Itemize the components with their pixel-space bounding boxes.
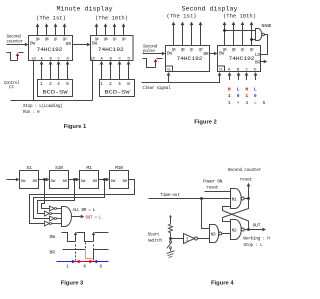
svg-text:BCD-SW: BCD-SW [105, 89, 130, 95]
svg-text:L: L [237, 87, 240, 93]
svg-text:74HC192: 74HC192 [229, 55, 256, 62]
svg-text:Start: Start [148, 233, 161, 238]
junction time-out tap [200, 197, 203, 200]
junction switch node [169, 237, 172, 240]
svg-text:N1: N1 [232, 197, 237, 202]
svg-text:BCD-SW: BCD-SW [43, 89, 68, 95]
junction QA tap [223, 29, 226, 32]
wire U2 LD down to control line [92, 61, 94, 101]
svg-text:counter: counter [7, 39, 24, 44]
svg-text:Time-out: Time-out [161, 193, 181, 198]
svg-text:QD: QD [63, 38, 67, 42]
svg-text:QD: QD [122, 38, 126, 42]
wire U1 BR to U2 DW [73, 44, 88, 46]
junction N2 output [247, 228, 250, 231]
nand gate N2 body [231, 220, 242, 240]
svg-text:1: 1 [40, 81, 43, 87]
svg-text:DW: DW [92, 43, 98, 47]
svg-text:OUT: OUT [253, 223, 261, 229]
wire S1 tap to inverter I1 [42, 180, 50, 209]
svg-text:Figure 4: Figure 4 [211, 281, 234, 287]
svg-text:FF: FF [9, 87, 15, 91]
svg-text:Control: Control [4, 81, 20, 86]
svg-text:BR: BR [93, 180, 98, 184]
svg-text:Second counter: Second counter [228, 168, 262, 173]
wire QA to G1 upper input [225, 30, 256, 32]
svg-text:S1: S1 [26, 165, 32, 171]
inverter I3 [50, 216, 55, 221]
ground symbol [167, 251, 175, 254]
wire U1 LD down to control line [33, 61, 35, 101]
U4 input stubs A B C D [229, 75, 231, 80]
counter box M1 [80, 171, 99, 189]
svg-text:DW: DW [50, 234, 56, 240]
clear arrow to U3 CL [168, 75, 170, 82]
wire S10 tap to inverter I2 [38, 180, 75, 214]
svg-text:1: 1 [100, 81, 103, 87]
svg-text:LD: LD [255, 54, 261, 58]
DW timing waveform [62, 233, 76, 242]
svg-text:DW: DW [81, 180, 86, 184]
power-on reset wire to N1 [205, 191, 231, 193]
wire G2 output [72, 216, 81, 218]
svg-text:QC: QC [190, 49, 194, 53]
svg-text:1: 1 [66, 264, 69, 270]
counter box S1 [20, 171, 39, 189]
svg-text:0: 0 [237, 93, 240, 99]
svg-text:DW: DW [21, 180, 26, 184]
wire U3 BR to U4 DW [210, 53, 215, 55]
wire second counter to U1 DW [7, 44, 26, 46]
svg-text:DW: DW [167, 53, 173, 57]
U2 (minutes 10th) output arrows QA-QD [96, 27, 98, 36]
control FF line to LD pins [11, 100, 93, 102]
second pulse waveform glyph [143, 59, 156, 68]
svg-text:DW: DW [51, 180, 56, 184]
svg-text:QC: QC [54, 38, 58, 42]
svg-text:(The 1st): (The 1st) [167, 14, 197, 20]
svg-text:4: 4 [118, 81, 121, 87]
svg-text:0: 0 [254, 93, 257, 99]
wire M10 BR out and around [30, 180, 135, 224]
svg-text:1: 1 [228, 100, 231, 106]
counter U4 (seconds 10th) 74HC192 body [218, 46, 261, 72]
OUT output arrow [249, 229, 263, 231]
svg-text:QC: QC [113, 38, 117, 42]
svg-text:reset: reset [240, 178, 253, 183]
wire switch node to inverter input [171, 238, 184, 240]
svg-text:4: 4 [245, 100, 248, 106]
resistor R1 zigzag [169, 223, 173, 239]
counter U1 (minutes 1st) 74HC192 body [29, 36, 73, 61]
svg-text:(The 10th): (The 10th) [95, 16, 128, 22]
svg-text:(The 10th): (The 10th) [223, 14, 256, 20]
nand gate N3 body [210, 225, 219, 243]
wire switch to ground [170, 249, 172, 251]
svg-text:9: 9 [99, 264, 102, 270]
start switch SW1 [170, 241, 172, 243]
svg-text:S10: S10 [55, 165, 63, 171]
cross-coupling N1 out to N2 in [223, 199, 249, 222]
nand gate G1 body [256, 29, 262, 41]
svg-text:QD: QD [199, 49, 203, 53]
switch block SW1 BCD-SW body [38, 80, 73, 97]
svg-text:M1: M1 [86, 165, 92, 171]
blue time axis [57, 261, 109, 263]
counter U3 (seconds 1st) 74HC192 body [166, 46, 210, 72]
wire U4 BR output [261, 61, 264, 63]
svg-text:5: 5 [263, 100, 266, 106]
junction tap S1 BR [43, 178, 46, 181]
U4 (seconds 10th) clear pin box CL [218, 66, 225, 72]
svg-text:H: H [245, 87, 248, 93]
svg-text:(The 1st): (The 1st) [36, 16, 66, 22]
svg-text:I: I [186, 237, 189, 243]
wire N1 output up to second counter reset [248, 186, 250, 198]
BR timing waveform high segments [63, 249, 86, 251]
wire QD to G1 lower input [252, 39, 256, 41]
svg-text:Figure 1: Figure 1 [64, 124, 87, 130]
svg-text:Clear signal: Clear signal [143, 86, 172, 91]
svg-text:8: 8 [127, 81, 130, 87]
svg-text:Stop : L: Stop : L [243, 243, 263, 248]
svg-text:BR: BR [50, 250, 56, 256]
nand gate N1 body [231, 189, 242, 209]
junction tap M1 BR [103, 178, 106, 181]
wire input to S1 DW [7, 179, 17, 181]
wire S1 BR to S10 DW [39, 179, 47, 181]
svg-text:NAND: NAND [262, 23, 272, 29]
wire N1 output to junction [244, 198, 248, 200]
SW1 output arrows to A B C D [41, 64, 43, 79]
svg-text:Run : H: Run : H [23, 110, 40, 115]
wire N3 output to N2 input [222, 233, 231, 235]
junction N1 output [247, 197, 250, 200]
wire G1 output to U4 LD [261, 35, 268, 55]
svg-text:BR: BR [63, 180, 68, 184]
svg-text:N2: N2 [232, 228, 237, 233]
wire node to switch [170, 239, 172, 241]
wire time-out tap down to N3 [202, 199, 210, 229]
svg-text:Second display: Second display [182, 6, 238, 13]
U3 (seconds 1st) clear pin box CL [166, 66, 173, 72]
wire inverter to N3 input [198, 238, 210, 240]
svg-text:reset: reset [206, 185, 219, 190]
svg-text:=: = [254, 101, 257, 106]
wire second pulse to U3 DW [143, 53, 163, 55]
svg-text:Figure 2: Figure 2 [194, 120, 217, 126]
svg-text:74HC192: 74HC192 [177, 55, 204, 62]
svg-text:QC: QC [241, 49, 245, 53]
counter box M10 [110, 171, 129, 189]
second counter pulse waveform glyph [7, 53, 18, 61]
inverter I1 [50, 206, 55, 211]
dashed timing guide at count 1 to 0 [75, 245, 77, 261]
svg-text:DW: DW [111, 180, 116, 184]
junction tap S10 BR [73, 178, 76, 181]
svg-text:DW: DW [30, 43, 36, 47]
svg-text:74HC192: 74HC192 [98, 46, 125, 53]
U4 output arrows QA-QD [224, 25, 226, 46]
BR borrow pulse (pink) [86, 250, 94, 259]
svg-text:BR: BR [33, 180, 38, 184]
U3 output arrows QA-QD [173, 25, 175, 46]
time-out wire to N1 [149, 198, 231, 200]
svg-text:74HC192: 74HC192 [37, 46, 64, 53]
pull-up supply arrow [170, 217, 172, 222]
clear signal line [142, 75, 220, 82]
cross-coupling N2 out to N1 in [223, 207, 249, 230]
svg-text:M10: M10 [115, 165, 123, 171]
inverter I2 [45, 211, 50, 216]
inverter I body [184, 234, 195, 244]
inverter I4 [45, 221, 50, 226]
svg-text:+: + [237, 101, 240, 106]
wire N2 output to junction [244, 229, 248, 231]
svg-text:Figure 3: Figure 3 [61, 281, 84, 287]
red span arrows (count 0 interval) [76, 261, 94, 263]
svg-text:4: 4 [57, 81, 60, 87]
dashed timing guide at count 0 to 9 [93, 245, 95, 261]
svg-text:QD: QD [250, 49, 254, 53]
svg-text:Power ON: Power ON [203, 180, 223, 185]
junction QD tap [250, 38, 253, 41]
and gate G2 (4-input) [62, 207, 72, 227]
switch block SW2 BCD-SW body [100, 80, 135, 97]
svg-text:8: 8 [66, 81, 69, 87]
svg-text:DW: DW [219, 53, 225, 57]
svg-text:N3: N3 [211, 232, 216, 237]
svg-text:BR: BR [66, 43, 72, 47]
svg-text:0: 0 [83, 264, 86, 270]
svg-text:1: 1 [228, 93, 231, 99]
svg-text:Minute display: Minute display [57, 6, 113, 13]
svg-text:Working : H: Working : H [243, 236, 270, 241]
svg-text:2: 2 [109, 81, 112, 87]
counter box S10 [50, 171, 69, 189]
dashed timing guide short at borrow [85, 243, 87, 249]
svg-text:L: L [254, 87, 257, 93]
svg-text:BR: BR [203, 53, 209, 57]
wire S10 BR to M1 DW [69, 179, 77, 181]
svg-text:BR: BR [255, 62, 261, 66]
svg-text:BR: BR [123, 180, 128, 184]
svg-text:1: 1 [245, 93, 248, 99]
counter U2 (minutes 10th) 74HC192 body [91, 36, 134, 61]
wire M1 tap to inverter I3 [34, 180, 105, 219]
U1 (minutes 1st) output arrows QA-QD [37, 27, 39, 36]
SW2 output arrows to A B C D [101, 64, 103, 79]
svg-text:OUT = L: OUT = L [86, 217, 103, 221]
svg-text:2: 2 [49, 81, 52, 87]
svg-text:H: H [228, 87, 231, 93]
svg-text:ALL BR = L: ALL BR = L [73, 209, 96, 213]
svg-text:Stop : L(Loading): Stop : L(Loading) [23, 104, 63, 109]
svg-text:switch: switch [148, 239, 163, 244]
wire M1 BR to M10 DW [99, 179, 107, 181]
